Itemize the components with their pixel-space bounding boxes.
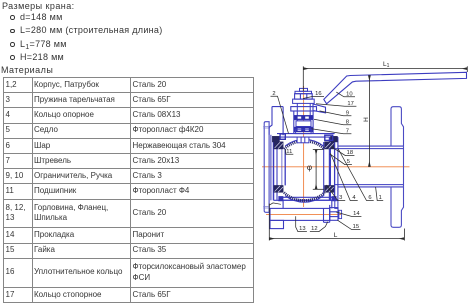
dimension H [368,75,370,167]
stem band 2 [296,121,311,127]
stem band 1 [294,115,312,120]
callout 15 [338,220,361,230]
ball braid bottom [284,193,325,201]
svg-text:H: H [363,117,370,122]
drain stud tip [339,210,342,218]
left text column [0,0,260,1]
right pipe outer walls [338,146,404,187]
callout 9 [320,110,352,116]
callout 4 [331,154,358,202]
right flange outline [391,107,404,228]
bottom plate bolt left [279,196,284,201]
squiggle leader near L left [269,203,281,205]
callout 7 [312,128,352,134]
stem nut [295,94,313,99]
callout 18 [331,147,354,157]
handle stop (item 9) [313,104,326,113]
stem cap into ball [297,137,309,143]
drain flange small box [335,200,338,208]
svg-text:L: L [334,232,338,239]
svg-text:L1: L1 [383,61,390,69]
drain nut (items 14/15) [330,208,338,221]
body top plate [277,134,335,138]
svg-text:φ: φ [307,163,312,172]
retainer square right [325,135,333,140]
drain boss [324,205,330,222]
centerline stem axis [303,86,305,207]
centerline drain axis [266,213,341,215]
left flange [264,122,271,213]
stem tip [300,88,308,91]
bottom plate bolt right [332,196,337,201]
callout 5 [330,154,352,165]
callout 12 [310,222,328,233]
dimension L [269,204,404,241]
drain flange box [283,200,332,208]
body left wall [274,137,278,200]
gland flange [291,107,317,111]
ball braid top [284,141,324,149]
stop ring 17 [293,99,315,103]
callout 13 [296,216,307,232]
callout 10 [336,91,355,97]
seat TR (hatched) [325,142,335,149]
dimension L1 [303,66,467,91]
body right wall [335,137,338,200]
callout 17 [316,101,356,107]
ball bottom arc [285,196,323,202]
left flange bolt hole lines [263,126,270,208]
stem washer top [295,91,312,93]
stem band 3 [294,127,312,132]
seat TL (hatched) [274,142,283,149]
bottom plate bar [281,197,334,200]
neck walls (item 8) [294,111,313,134]
handle (item 10) [324,72,467,104]
callout 8 [314,119,351,125]
dimension phi-d [313,150,324,190]
drain bar (items 12/13) [270,208,330,220]
right pipe bore lines [335,149,404,185]
centerline pipe axis [262,166,410,168]
right seat ring lines [324,137,330,200]
stem bottom flare [296,129,312,133]
callouts [271,91,384,232]
callout 6 [338,149,374,202]
callout 1 [376,187,384,201]
callout 3 [327,185,346,201]
left seat ring lines [282,149,285,185]
callout 2 [271,91,289,134]
callout 11 [285,149,293,155]
retainer square left [280,134,285,139]
body bottom line [274,199,339,201]
callout 16 [303,91,324,99]
corner block TR2 (hatched) [331,136,338,142]
corner block TL2 (hatched) [272,136,279,142]
stem under ring [297,103,310,129]
seat BR (hatched) [325,185,335,192]
body top-left lug [269,107,283,136]
seat BL (hatched) [274,185,283,192]
ball top arc (item 6) [285,139,323,145]
drain left tab [270,220,284,228]
callout 14 [336,211,361,217]
